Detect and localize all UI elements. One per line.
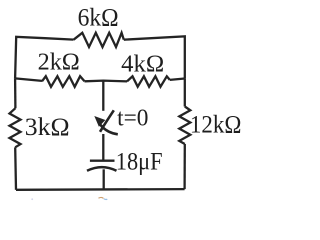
capacitor bottom plate arc <box>87 167 117 171</box>
wire left-upper of 3k <box>14 78 17 108</box>
wire right-lower of 12k <box>183 144 185 189</box>
wire top-right segment <box>124 36 185 78</box>
svg-text:3kΩ: 3kΩ <box>25 114 70 141</box>
resistor 3k zigzag <box>10 108 21 147</box>
switch blade <box>100 110 114 132</box>
wire left-lower of 3k <box>14 147 17 190</box>
resistor 2k zigzag <box>42 76 85 87</box>
wire middle-right segment <box>170 79 185 80</box>
wire middle-center segment <box>85 79 128 82</box>
switch motion arc <box>100 125 118 135</box>
wire switch top lead <box>102 81 104 111</box>
wire switch bottom lead <box>102 134 104 160</box>
switch arrowhead <box>94 116 105 127</box>
svg-text:4kΩ: 4kΩ <box>121 52 164 78</box>
wire capacitor bottom lead <box>103 169 105 189</box>
capacitor top plate <box>90 160 115 162</box>
artifact squiggle bottom-center <box>99 196 104 199</box>
svg-text:2kΩ: 2kΩ <box>38 50 80 76</box>
wire bottom rail <box>16 188 185 191</box>
wire right-upper of 12k <box>184 78 186 106</box>
wire top-left segment <box>15 37 74 79</box>
resistor 12k zigzag <box>179 107 190 145</box>
resistor 4k zigzag <box>127 76 170 86</box>
svg-text:6kΩ: 6kΩ <box>78 5 119 32</box>
artifact dot bottom-left <box>31 198 33 200</box>
svg-text:18μF: 18μF <box>116 149 163 176</box>
resistor 6k zigzag <box>74 33 124 47</box>
wire middle-left segment <box>15 78 42 81</box>
svg-text:t=0: t=0 <box>117 105 148 132</box>
svg-text:12kΩ: 12kΩ <box>190 112 242 139</box>
